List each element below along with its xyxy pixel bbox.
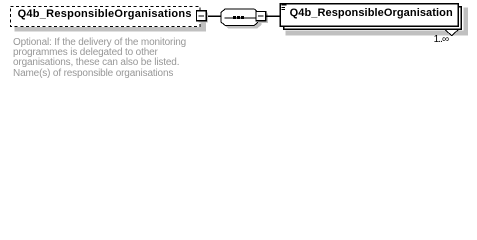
shadow of expand button 1 xyxy=(198,13,208,23)
optional element box Q4b_ResponsibleOrganisations xyxy=(10,6,201,27)
sequence dot 2 xyxy=(237,16,240,19)
shadow of optional element box xyxy=(15,11,207,32)
shadow of expand button 2 xyxy=(258,13,268,22)
sequence compositor octagon xyxy=(221,9,258,26)
element box Q4b_ResponsibleOrganisation (front rectangle) xyxy=(280,4,458,27)
occurrence label 1..infinity xyxy=(434,35,449,45)
shadow of sequence compositor xyxy=(224,12,261,29)
wire from expand button to sequence compositor xyxy=(206,16,221,17)
label Q4b_ResponsibleOrganisations xyxy=(18,9,192,20)
sequence inner line xyxy=(225,17,256,18)
back rectangle of repeated element box xyxy=(284,7,462,30)
expand button 2 (minus box on sequence) xyxy=(256,11,266,20)
sequence dot 3 xyxy=(241,16,244,19)
sequence dot 1 xyxy=(233,16,236,19)
label Q4b_ResponsibleOrganisation xyxy=(290,8,453,19)
shadow of element box Q4b_ResponsibleOrganisation (bottom band) xyxy=(286,30,469,35)
element content icon (three lines) xyxy=(281,4,286,10)
annotation text xyxy=(13,38,186,79)
shadow of element box Q4b_ResponsibleOrganisation (right band) xyxy=(463,8,468,36)
occurrence notch (triangle below element box) xyxy=(445,30,459,36)
expand button 1 (minus box on parent element) xyxy=(196,11,206,21)
wire from sequence to child element box xyxy=(266,16,280,17)
